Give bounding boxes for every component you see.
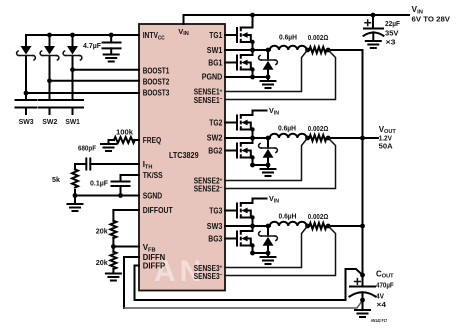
svg-text:SW2: SW2 bbox=[207, 134, 223, 143]
svg-text:BOOST3: BOOST3 bbox=[143, 89, 170, 98]
svg-text:0.002Ω: 0.002Ω bbox=[308, 124, 329, 133]
svg-text:0.002Ω: 0.002Ω bbox=[308, 212, 329, 221]
svg-text:BOOST1: BOOST1 bbox=[143, 66, 170, 75]
svg-text:TK/SS: TK/SS bbox=[143, 171, 164, 180]
svg-text:0.6µH: 0.6µH bbox=[279, 211, 297, 220]
svg-text:FREQ: FREQ bbox=[143, 136, 162, 145]
svg-text:SENSE3−: SENSE3− bbox=[194, 272, 223, 281]
svg-text:DIFFP: DIFFP bbox=[143, 261, 166, 270]
svg-text:DIFFOUT: DIFFOUT bbox=[143, 206, 173, 215]
svg-text:LTC3829: LTC3829 bbox=[169, 151, 199, 160]
svg-text:BG1: BG1 bbox=[208, 59, 222, 68]
svg-text:×3: ×3 bbox=[386, 38, 396, 47]
svg-text:6V TO 28V: 6V TO 28V bbox=[412, 15, 451, 24]
svg-text:TG3: TG3 bbox=[209, 207, 222, 216]
svg-text:0.6µH: 0.6µH bbox=[278, 123, 296, 132]
svg-text:TG2: TG2 bbox=[209, 119, 222, 128]
svg-text:BG3: BG3 bbox=[208, 235, 222, 244]
svg-text:SGND: SGND bbox=[143, 192, 163, 201]
svg-text:SENSE1−: SENSE1− bbox=[194, 96, 223, 105]
svg-text:SW2: SW2 bbox=[42, 117, 57, 126]
svg-text:SW1: SW1 bbox=[207, 46, 223, 55]
svg-text:470µF: 470µF bbox=[376, 281, 394, 290]
svg-text:AN142 F17: AN142 F17 bbox=[371, 318, 388, 323]
svg-text:35V: 35V bbox=[385, 29, 399, 38]
svg-text:4.7µF: 4.7µF bbox=[83, 41, 101, 50]
svg-text:0.1µF: 0.1µF bbox=[90, 179, 108, 188]
svg-text:50A: 50A bbox=[379, 142, 394, 151]
svg-text:BOOST2: BOOST2 bbox=[143, 77, 170, 86]
svg-text:0.6µH: 0.6µH bbox=[279, 32, 297, 41]
svg-text:0.002Ω: 0.002Ω bbox=[308, 33, 329, 42]
svg-text:100k: 100k bbox=[116, 128, 134, 137]
svg-text:×4: ×4 bbox=[377, 300, 387, 309]
svg-text:SENSE2−: SENSE2− bbox=[194, 185, 223, 194]
svg-text:SW1: SW1 bbox=[65, 117, 80, 126]
svg-text:BG2: BG2 bbox=[208, 146, 222, 155]
svg-text:680pF: 680pF bbox=[78, 144, 96, 153]
svg-text:20k: 20k bbox=[96, 258, 109, 267]
svg-text:PGND: PGND bbox=[202, 73, 223, 82]
svg-text:5k: 5k bbox=[52, 175, 61, 184]
svg-text:20k: 20k bbox=[96, 227, 109, 236]
svg-text:SW3: SW3 bbox=[207, 222, 223, 231]
svg-text:SW3: SW3 bbox=[19, 117, 34, 126]
svg-text:TG1: TG1 bbox=[209, 31, 222, 40]
svg-text:22µF: 22µF bbox=[385, 19, 400, 28]
